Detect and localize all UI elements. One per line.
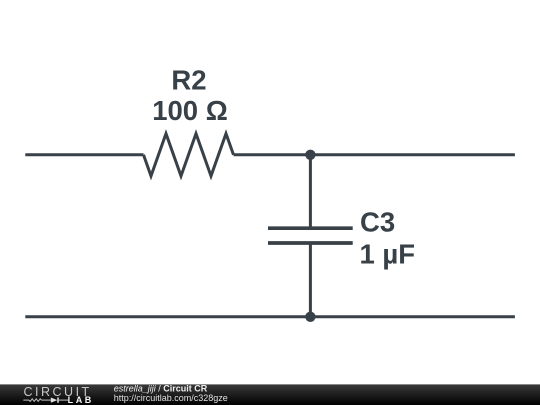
svg-text:LAB: LAB — [68, 395, 94, 405]
svg-text:estrella_jiji / Circuit CR: estrella_jiji / Circuit CR — [114, 384, 208, 394]
svg-text:1 µF: 1 µF — [360, 239, 416, 270]
logo mini-circuit: lead-in wire — [23, 399, 29, 401]
logo mini-circuit: wire to diode — [42, 399, 51, 401]
svg-text:C3: C3 — [360, 207, 395, 238]
logo mini-circuit: wire out of diode — [59, 399, 68, 401]
svg-text:100 Ω: 100 Ω — [152, 95, 228, 126]
svg-text:R2: R2 — [171, 65, 206, 96]
wire: resistor to node A — [234, 153, 311, 156]
logo mini-circuit: resistor zigzag — [29, 399, 42, 402]
footer bar — [0, 384, 540, 405]
wire: bottom rail — [25, 315, 515, 318]
node A junction dot (top) — [305, 150, 315, 160]
svg-text:http://circuitlab.com/c328gze: http://circuitlab.com/c328gze — [114, 393, 228, 403]
logo mini-circuit: diode triangle — [51, 398, 58, 403]
resistor R2 — [144, 134, 234, 176]
capacitor C3 top plate — [268, 226, 353, 230]
wire: capacitor bottom plate to node B — [309, 243, 312, 317]
node B junction dot (bottom) — [305, 312, 315, 322]
capacitor C3 bottom plate — [268, 241, 353, 245]
logo mini-circuit: diode bar — [57, 397, 59, 402]
wire: node A to right edge — [310, 153, 515, 156]
wire: top-left horizontal segment — [25, 153, 143, 156]
wire: node A down to capacitor top plate — [309, 155, 312, 228]
